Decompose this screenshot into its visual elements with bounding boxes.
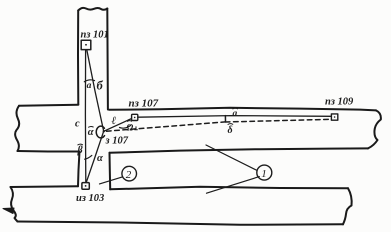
svg-text:а: а (233, 109, 238, 119)
point пз101 square (81, 40, 91, 49)
angle arc β at plumb/line-с (85, 155, 92, 159)
svg-text:ℓ: ℓ (112, 115, 117, 127)
angle arc under пз107 (120, 126, 131, 129)
svg-text:α: α (88, 127, 94, 138)
svg-text:α: α (97, 153, 103, 164)
wall: left drift bottom (18, 150, 80, 153)
point пз109 square (331, 114, 337, 120)
leader upper for callout 1 (206, 145, 257, 170)
wall: top shaft wavy break (78, 8, 107, 11)
svg-text:с: с (75, 119, 80, 130)
plumb tick on line пз107-пз109 (224, 116, 226, 122)
wall: lower stub right (109, 153, 112, 190)
wall: left drift wavy break (15, 106, 19, 151)
traverse line пз101 to з107 (87, 50, 104, 131)
svg-text:а: а (87, 81, 92, 91)
wall: top shaft right (106, 9, 109, 110)
wall: left drift top (19, 105, 78, 106)
traverse line з107 to пз107 (104, 119, 131, 132)
point пз107 square (132, 114, 138, 120)
leader for callout 2 (100, 177, 123, 184)
callout circle 1 (257, 165, 272, 180)
wall: lower drift bottom edge (18, 222, 344, 225)
svg-text:δ: δ (228, 125, 233, 136)
dashed gyro line tick point to пз109 (225, 119, 331, 122)
svg-text:б: б (97, 79, 104, 93)
station circle at з107 (96, 126, 104, 138)
vertex dot з107 (103, 130, 105, 132)
svg-text:з 107: з 107 (105, 136, 129, 147)
wall: right drift top (109, 108, 376, 111)
svg-text:из 103: из 103 (76, 193, 104, 204)
wall: lower drift top edge left segment (11, 185, 78, 188)
wall: lower drift left break whisker (3, 208, 14, 214)
svg-text:пз 109: пз 109 (325, 97, 354, 108)
traverse line з107 to из103 (86, 131, 103, 182)
leader lower for callout 1 (207, 177, 260, 194)
wall: right drift wavy break (368, 110, 381, 148)
svg-text:2: 2 (126, 169, 132, 181)
svg-text:1: 1 (261, 168, 267, 180)
traverse line пз107 to пз109 (138, 116, 331, 118)
svg-text:Ω: Ω (127, 123, 134, 133)
point из103 square (82, 183, 89, 190)
wall: lower drift top edge right segment (110, 187, 348, 190)
callout circle 2 (122, 166, 137, 181)
svg-text:пз 107: пз 107 (129, 98, 159, 110)
wall: lower drift left wavy break (11, 187, 18, 222)
plumb line a: пз101 to из103 (84, 50, 86, 183)
svg-text:β: β (77, 145, 84, 156)
dashed gyro line з107 to tick point (107, 122, 226, 131)
wall: right drift bottom (110, 148, 369, 152)
angle arc at пз101 (84, 80, 94, 82)
svg-text:пз 101: пз 101 (81, 30, 109, 41)
wall: lower drift right slanted cut (343, 188, 352, 224)
wall: lower stub left (78, 152, 80, 187)
wall: top shaft left (77, 11, 79, 105)
